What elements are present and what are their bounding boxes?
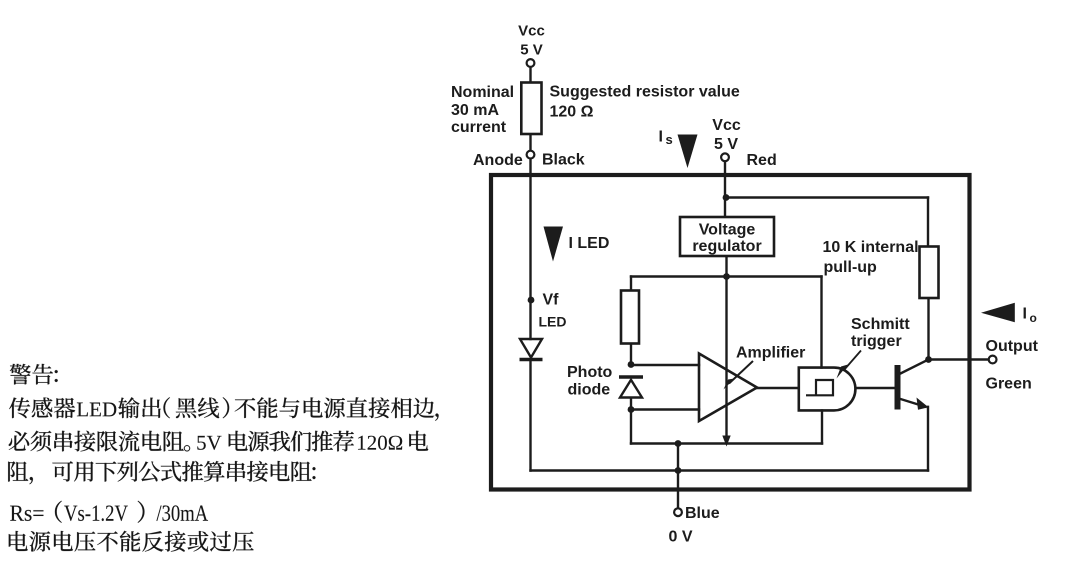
svg-text:120 Ω: 120 Ω	[550, 104, 594, 121]
svg-text:I LED: I LED	[569, 235, 610, 252]
svg-text:s: s	[666, 132, 673, 147]
svg-text:Vcc: Vcc	[712, 117, 741, 134]
svg-text:LED: LED	[539, 314, 567, 330]
svg-text:Photo: Photo	[567, 364, 613, 381]
svg-text:Green: Green	[986, 375, 1032, 392]
svg-text:Vf: Vf	[543, 292, 560, 309]
svg-text:Amplifier: Amplifier	[736, 345, 805, 362]
svg-text:trigger: trigger	[851, 333, 902, 350]
svg-text:Nominal: Nominal	[451, 84, 514, 101]
svg-text:0 V: 0 V	[669, 529, 693, 546]
svg-text:10 K internal: 10 K internal	[823, 239, 919, 256]
svg-text:Suggested resistor value: Suggested resistor value	[550, 84, 740, 101]
svg-text:Output: Output	[986, 338, 1039, 355]
svg-text:Red: Red	[747, 152, 777, 169]
svg-text:Schmitt: Schmitt	[851, 316, 910, 333]
svg-text:Black: Black	[542, 152, 585, 169]
svg-text:I: I	[659, 129, 663, 146]
svg-text:Blue: Blue	[685, 505, 720, 522]
svg-text:Anode: Anode	[473, 152, 523, 169]
svg-text:Vcc: Vcc	[518, 23, 545, 40]
svg-text:pull-up: pull-up	[824, 259, 878, 276]
svg-text:I: I	[1023, 306, 1027, 323]
svg-text:5 V: 5 V	[520, 42, 543, 59]
svg-text:regulator: regulator	[692, 238, 761, 255]
svg-text:diode: diode	[568, 382, 611, 399]
svg-text:Voltage: Voltage	[699, 222, 756, 239]
svg-text:5 V: 5 V	[714, 136, 738, 153]
svg-text:current: current	[451, 119, 507, 136]
svg-text:30 mA: 30 mA	[451, 102, 499, 119]
svg-text:o: o	[1030, 311, 1037, 325]
